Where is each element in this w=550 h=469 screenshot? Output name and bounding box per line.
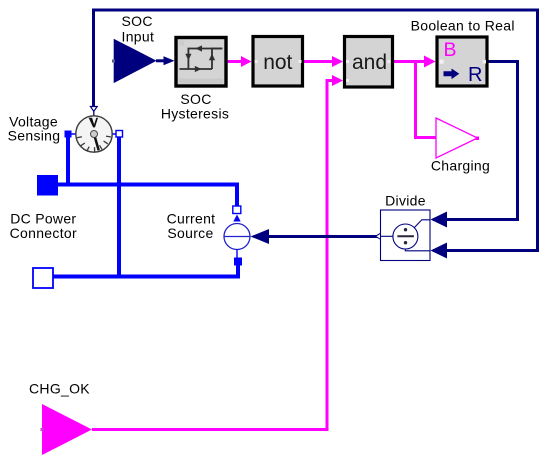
svg-text:CHG_OK: CHG_OK	[29, 381, 90, 397]
voltmeter Voltage Sensing	[65, 107, 123, 153]
input connector SOC Input	[112, 39, 157, 83]
wire: voltage sensor right pin down	[117, 137, 121, 277]
input connector CHG_OK	[41, 404, 93, 455]
svg-text:Charging: Charging	[431, 158, 490, 174]
wire: not output to and	[304, 60, 336, 63]
block Divide	[376, 210, 431, 261]
wire: CHG_OK up to and-block lower input	[92, 81, 334, 430]
arrowhead into Divide upper input	[431, 212, 448, 228]
wire: DC+ to Current Source top, electrical	[58, 185, 237, 208]
wire: voltage sensor left pin down	[66, 137, 70, 185]
connector DC+ pin	[37, 175, 58, 196]
svg-text:Hysteresis: Hysteresis	[161, 106, 229, 122]
output connector Charging	[436, 118, 479, 158]
arrowhead into Boolean-to-Real	[424, 56, 436, 68]
wire: Divide output to Current Source	[254, 235, 381, 238]
svg-text:SOC: SOC	[122, 13, 153, 29]
svg-text:Connector: Connector	[10, 225, 77, 241]
connector DC- pin	[33, 268, 53, 288]
arrowhead into Divide lower input	[431, 243, 448, 259]
svg-text:Source: Source	[167, 225, 213, 241]
block SOC Hysteresis	[176, 38, 226, 87]
svg-text:B: B	[444, 39, 457, 61]
svg-text:Boolean to Real: Boolean to Real	[411, 18, 515, 34]
svg-text:Sensing: Sensing	[8, 128, 61, 144]
wire: voltage sensor output, up across top and down right side to Divide lower input	[94, 10, 538, 251]
arrowhead into not	[241, 56, 252, 67]
svg-text:R: R	[468, 64, 482, 86]
wire: branch to Charging output	[416, 62, 437, 138]
block and	[345, 37, 393, 88]
arrowhead into and-block lower input	[332, 75, 343, 86]
wire: and output to Boolean-to-Real	[394, 60, 428, 63]
svg-text:Divide: Divide	[385, 193, 426, 209]
block Boolean to Real U_B2R	[437, 37, 487, 86]
current source	[224, 206, 250, 266]
svg-text:not: not	[263, 51, 292, 74]
wire: SOC input to hysteresis	[156, 59, 166, 62]
arrowhead into hysteresis	[164, 56, 175, 65]
arrowhead into Current Source	[251, 229, 270, 244]
arrowhead into and	[332, 56, 343, 67]
svg-text:Input: Input	[122, 29, 155, 45]
wire: DC- to Current Source bottom, electrical	[53, 264, 238, 277]
wire: Boolean-to-Real output down to Divide upper input	[433, 62, 518, 220]
block not	[253, 37, 303, 87]
svg-text:and: and	[352, 51, 387, 74]
wire: hysteresis output to not	[227, 60, 245, 63]
